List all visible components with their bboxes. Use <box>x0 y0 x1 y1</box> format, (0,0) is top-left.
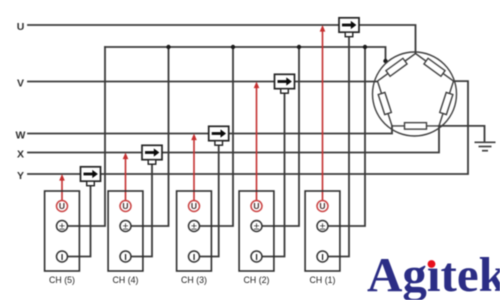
svg-text:Y: Y <box>17 170 24 182</box>
svg-text:I: I <box>321 252 323 262</box>
terminal circles: CH3 <box>189 201 200 263</box>
channel box CH5 <box>45 191 80 271</box>
wire: CH4 plus-minus drop <box>131 47 169 226</box>
svg-text:X: X <box>17 148 24 160</box>
voltage probe arrow CH4 <box>123 153 129 201</box>
junction dot bus to motor frame <box>383 59 387 63</box>
wire: phase V line <box>28 81 378 83</box>
voltage probe arrow CH3 <box>191 134 197 201</box>
current sensor CH3 <box>209 126 229 145</box>
voltage probe arrow CH1 <box>320 25 326 201</box>
resistor winding right <box>440 92 453 114</box>
junction dot bus-CH4 <box>166 45 170 49</box>
wire: phase U line left segment <box>28 24 339 26</box>
svg-text:V: V <box>17 77 24 89</box>
channel box CH3 <box>177 191 212 271</box>
voltage probe arrow CH5 <box>59 174 65 201</box>
terminal circles: CH5 <box>57 201 68 263</box>
wire: CH1 current lead <box>329 37 350 257</box>
wire: pentagon edge top-right <box>416 54 454 82</box>
wire: pentagon edge bottom <box>392 125 439 127</box>
wire: pentagon edge top-left <box>378 54 416 82</box>
junction dot bus-CH1 <box>363 45 367 49</box>
wire: phase Y line <box>28 81 468 174</box>
junction dot bus-CH2 <box>297 45 301 49</box>
wire: common bus horizontal <box>105 47 386 61</box>
wire: CH3 current lead <box>200 145 219 256</box>
terminal circles: CH2 <box>251 201 262 263</box>
svg-text:U: U <box>59 201 65 211</box>
terminal circles: CH4 <box>120 201 131 263</box>
junction dot bus-CH3 <box>231 45 235 49</box>
wire: ground line from motor <box>439 126 485 142</box>
svg-text:±: ± <box>320 220 326 232</box>
svg-text:U: U <box>319 201 325 211</box>
svg-text:I: I <box>255 252 257 262</box>
svg-text:CH (3): CH (3) <box>181 275 207 285</box>
wire: CH2 plus-minus drop <box>263 47 300 226</box>
svg-text:CH (5): CH (5) <box>49 275 75 285</box>
terminal circles: CH1 <box>317 201 328 263</box>
resistor winding bottom <box>405 123 427 129</box>
svg-text:U: U <box>122 201 128 211</box>
svg-text:U: U <box>191 201 197 211</box>
voltage probe arrow CH2 <box>254 82 260 201</box>
svg-text:CH (2): CH (2) <box>244 275 270 285</box>
svg-text:±: ± <box>59 220 65 232</box>
resistor winding upper-right <box>424 58 445 76</box>
wire: CH2 current lead <box>263 93 285 256</box>
svg-text:W: W <box>16 129 26 141</box>
svg-text:I: I <box>193 252 195 262</box>
motor circle <box>373 52 457 136</box>
svg-text:U: U <box>253 201 259 211</box>
svg-text:Agıtek: Agıtek <box>367 247 500 300</box>
resistor winding upper-left <box>386 58 407 76</box>
channel box CH4 <box>108 191 143 271</box>
channel box CH1 <box>305 191 340 271</box>
svg-text:CH (1): CH (1) <box>310 275 336 285</box>
wire: pentagon edge right <box>439 81 454 126</box>
channel box CH2 <box>239 191 274 271</box>
wire: CH5 plus-minus drop <box>68 47 106 226</box>
svg-text:I: I <box>124 252 126 262</box>
Agitek logo <box>367 247 500 300</box>
current sensor CH5 <box>81 167 101 186</box>
resistor winding left <box>378 92 391 114</box>
wire: phase W line <box>28 126 392 134</box>
wire: CH3 plus-minus drop <box>200 47 234 226</box>
svg-text:U: U <box>17 21 25 33</box>
wire: phase U line right segment to motor top <box>359 25 416 54</box>
svg-text:±: ± <box>191 220 197 232</box>
current sensor CH4 <box>142 145 162 164</box>
current sensor CH2 <box>275 74 295 93</box>
svg-text:±: ± <box>123 220 129 232</box>
svg-text:I: I <box>61 252 63 262</box>
wire: pentagon edge left <box>378 81 393 126</box>
svg-text:±: ± <box>254 220 260 232</box>
wire: phase X line <box>28 126 439 153</box>
wire: CH5 current lead <box>68 186 91 257</box>
wire: CH4 current lead <box>131 164 152 256</box>
current sensor CH1 <box>339 18 359 37</box>
ground <box>475 142 496 150</box>
wire: CH1 plus-minus drop <box>329 47 366 226</box>
svg-text:CH (4): CH (4) <box>113 275 139 285</box>
